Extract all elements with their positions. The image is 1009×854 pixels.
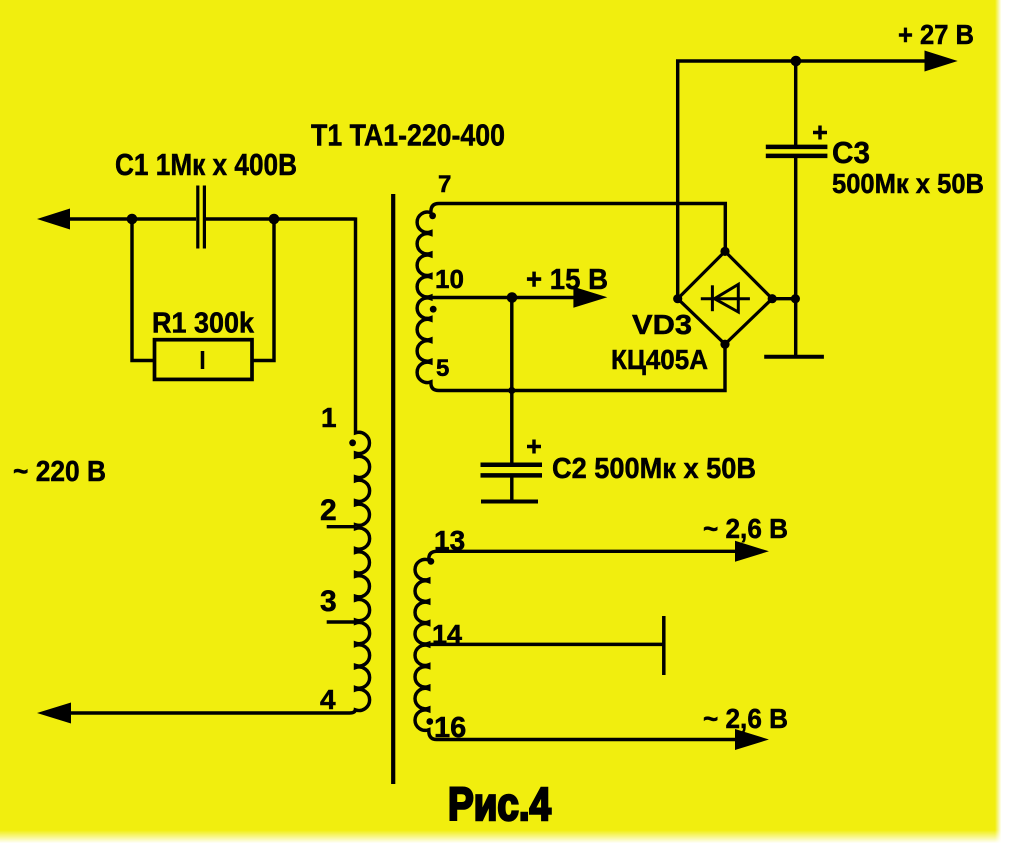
transformer secondary winding 14-16 [415, 644, 429, 731]
phase dot winding 10-5 [430, 306, 437, 313]
phase dot winding 7 [429, 212, 436, 219]
bridge node right [768, 294, 777, 303]
wire pin 13 output [429, 551, 736, 559]
node C2 crossing pin5 wire [508, 387, 515, 394]
arrow AC input top (left) [37, 209, 70, 230]
node junction +15V / C2 [507, 292, 518, 303]
wire C2 branch [510, 298, 513, 463]
svg-text:+ 27 В: + 27 В [898, 19, 974, 50]
wire C3 negative lead [794, 158, 797, 355]
svg-text:5: 5 [436, 355, 449, 382]
wire pin 14 output [429, 643, 664, 646]
tap stub pin 3 [327, 620, 356, 623]
wire pin 10 (+15V tap) [431, 296, 574, 299]
transformer T1 primary winding section 1-2 [356, 431, 370, 527]
transformer core [391, 194, 395, 784]
C3 terminal bar [764, 355, 824, 359]
phase dot winding 16 [426, 718, 433, 725]
tap stub pin 2 [327, 525, 356, 528]
svg-text:1: 1 [321, 402, 337, 433]
capacitor C3 [766, 147, 828, 156]
bridge node bottom [720, 340, 729, 349]
capacitor C2 plus sign [527, 440, 541, 454]
wire C2 negative lead [510, 477, 513, 501]
wire pin 7 to bridge top [431, 204, 725, 252]
pin 14 terminal bar [662, 616, 666, 675]
arrow +15V output [573, 287, 607, 308]
wire bridge right to C3 line [772, 297, 796, 300]
svg-text:КЦ405А: КЦ405А [611, 344, 708, 375]
arrow AC input bottom (left) [37, 703, 71, 724]
svg-text:3: 3 [320, 585, 337, 618]
resistor R1 [155, 340, 253, 380]
wire R1 left branch [132, 219, 155, 361]
capacitor C1 [198, 186, 205, 249]
svg-text:~ 2,6 В: ~ 2,6 В [703, 513, 788, 544]
wire C3 positive lead [794, 61, 797, 145]
svg-text:+ 15 В: + 15 В [526, 264, 608, 296]
node junction left of C1 [127, 214, 138, 225]
svg-text:500Мк x 50В: 500Мк x 50В [832, 168, 984, 199]
svg-text:Рис.4: Рис.4 [448, 778, 551, 830]
svg-text:10: 10 [435, 264, 464, 294]
svg-text:2: 2 [320, 494, 337, 527]
transformer secondary winding 10-5 [417, 298, 431, 384]
primary phase dot [349, 439, 356, 446]
C2 terminal bar [481, 500, 538, 504]
capacitor C3 plus sign [813, 126, 827, 140]
svg-text:R1 300k: R1 300k [152, 308, 254, 340]
svg-text:~ 220 В: ~ 220 В [13, 456, 106, 488]
wire pin 16 output [429, 731, 736, 740]
wire AC input top to C1 left plate [63, 217, 196, 220]
wire C1 right plate to transformer pin 1 [206, 217, 356, 431]
node junction +27V / C3 [791, 56, 802, 67]
svg-text:C2 500Мк x 50В: C2 500Мк x 50В [552, 453, 756, 485]
svg-text:~ 2,6 В: ~ 2,6 В [703, 703, 788, 734]
svg-text:VD3: VD3 [632, 309, 692, 340]
svg-text:7: 7 [438, 171, 451, 198]
diode bridge VD3 outline [678, 251, 773, 344]
wire pin 4 to AC input bottom [71, 709, 356, 713]
resistor R1 power mark [201, 351, 205, 369]
arrow ~2.6V bottom output [735, 729, 769, 750]
arrow ~2.6V top output [735, 541, 769, 562]
svg-text:T1 TA1-220-400: T1 TA1-220-400 [311, 118, 505, 153]
svg-text:4: 4 [320, 684, 336, 715]
transformer T1 primary winding section 3-4 [356, 622, 370, 711]
wire R1 right branch [252, 219, 274, 361]
arrow +27V output [925, 51, 958, 72]
bridge node left [673, 294, 682, 303]
capacitor C2 [481, 465, 543, 476]
transformer secondary winding 13-14 [415, 559, 429, 644]
svg-text:C3: C3 [832, 135, 870, 170]
svg-text:C1 1Мк x 400В: C1 1Мк x 400В [115, 147, 297, 182]
phase dot winding 13 [428, 558, 435, 565]
node junction right of C1 [269, 214, 280, 225]
transformer secondary winding 7-10 [417, 212, 431, 298]
wire bridge left to +27V rail [678, 61, 925, 299]
bridge node top [720, 247, 729, 256]
transformer T1 primary winding section 2-3 [356, 527, 370, 622]
node junction bridge right / C3 line [791, 294, 800, 303]
bridge diode symbol [701, 284, 750, 312]
wire pin 5 to bridge bottom [431, 344, 725, 390]
